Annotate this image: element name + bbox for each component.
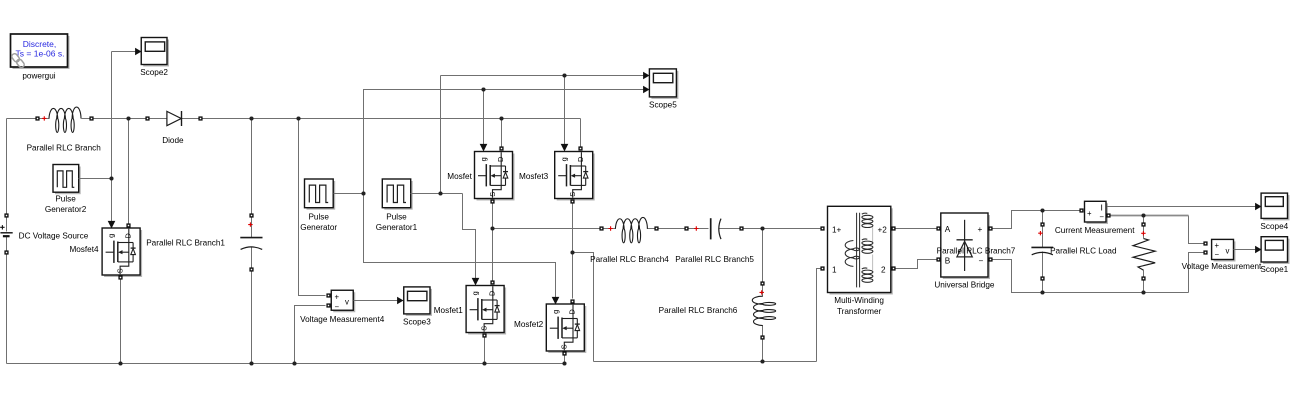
svg-text:Scope3: Scope3 <box>403 317 431 326</box>
svg-text:Scope1: Scope1 <box>1260 265 1288 274</box>
svg-text:Parallel RLC Branch4: Parallel RLC Branch4 <box>590 255 669 264</box>
svg-text:Mosfet1: Mosfet1 <box>434 306 464 315</box>
svg-text:1: 1 <box>832 265 837 274</box>
svg-text:+: + <box>1087 209 1092 218</box>
svg-text:1+: 1+ <box>832 225 842 234</box>
svg-text:Generator: Generator <box>300 223 337 232</box>
svg-text:Universal Bridge: Universal Bridge <box>934 281 995 290</box>
svg-text:Pulse: Pulse <box>308 212 329 221</box>
svg-text:Discrete,: Discrete, <box>23 39 57 49</box>
svg-text:Parallel RLC Branch1: Parallel RLC Branch1 <box>146 239 225 248</box>
svg-text:Parallel RLC Branch6: Parallel RLC Branch6 <box>659 306 738 315</box>
svg-text:Parallel RLC Branch7: Parallel RLC Branch7 <box>937 247 1016 256</box>
svg-text:Generator1: Generator1 <box>376 223 418 232</box>
svg-text:Scope5: Scope5 <box>649 101 677 110</box>
svg-text:+: + <box>1215 241 1220 250</box>
svg-text:Mosfet: Mosfet <box>447 172 472 181</box>
svg-text:I: I <box>1101 202 1103 212</box>
svg-text:Multi-Winding: Multi-Winding <box>834 296 884 305</box>
svg-text:v: v <box>1226 247 1230 256</box>
svg-text:Voltage Measurement: Voltage Measurement <box>1182 262 1262 271</box>
svg-text:Parallel RLC Branch: Parallel RLC Branch <box>27 144 102 153</box>
svg-text:Mosfet4: Mosfet4 <box>69 245 99 254</box>
svg-text:powergui: powergui <box>22 72 55 81</box>
svg-text:Pulse: Pulse <box>55 195 76 204</box>
svg-text:Transformer: Transformer <box>837 307 882 316</box>
svg-text:+: + <box>978 225 983 234</box>
svg-text:Mosfet2: Mosfet2 <box>514 320 544 329</box>
svg-text:−: − <box>1099 213 1104 222</box>
svg-text:Parallel RLC Branch5: Parallel RLC Branch5 <box>675 255 754 264</box>
svg-text:Generator2: Generator2 <box>45 205 87 214</box>
svg-text:B: B <box>945 256 951 265</box>
svg-text:−: − <box>979 256 984 265</box>
svg-text:Scope2: Scope2 <box>140 68 168 77</box>
svg-text:Ts = 1e-06 s.: Ts = 1e-06 s. <box>16 49 65 59</box>
svg-text:Parallel RLC Load: Parallel RLC Load <box>1050 247 1117 256</box>
svg-text:DC Voltage Source: DC Voltage Source <box>19 232 89 241</box>
svg-text:Scope4: Scope4 <box>1260 222 1288 231</box>
svg-text:Pulse: Pulse <box>386 212 407 221</box>
svg-text:−: − <box>335 302 340 311</box>
svg-text:−: − <box>1215 250 1220 259</box>
svg-text:v: v <box>345 298 349 307</box>
svg-text:Diode: Diode <box>162 136 184 145</box>
svg-text:A: A <box>945 225 951 234</box>
svg-text:+: + <box>335 293 340 302</box>
svg-text:Voltage Measurement4: Voltage Measurement4 <box>300 315 385 324</box>
svg-text:2: 2 <box>881 265 886 274</box>
svg-text:Mosfet3: Mosfet3 <box>519 172 549 181</box>
svg-text:Current Measurement: Current Measurement <box>1055 226 1135 235</box>
svg-text:+2: +2 <box>878 225 888 234</box>
